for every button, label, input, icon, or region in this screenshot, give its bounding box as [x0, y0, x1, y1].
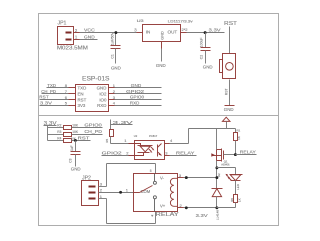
svg-text:RST: RST: [39, 95, 49, 100]
svg-text:GND: GND: [111, 65, 121, 70]
ESP right pin 1 GND: [109, 87, 115, 89]
svg-text:3.3V: 3.3V: [40, 101, 52, 106]
ESP right pin 2 GPIO2: [109, 93, 115, 95]
connector JP2: [82, 175, 103, 205]
LED D2: [225, 174, 242, 190]
wire GND net JP1 pin1: [80, 39, 98, 41]
svg-text:GPIO0: GPIO0: [130, 95, 145, 100]
svg-text:IO2: IO2: [99, 92, 107, 97]
svg-text:IN: IN: [146, 30, 151, 35]
svg-text:RST: RST: [78, 136, 90, 141]
wire JP2 pin1 to relay bottom pin: [99, 198, 107, 200]
svg-text:M023.5MM: M023.5MM: [57, 46, 88, 52]
svg-text:1uF/50V: 1uF/50V: [110, 32, 114, 46]
svg-text:PC817: PC817: [149, 134, 157, 138]
supply 3.3V triangle: [222, 117, 230, 121]
svg-text:V+: V+: [160, 204, 166, 209]
svg-text:2*2: 2*2: [182, 27, 189, 32]
wire relay pin2 to 3.3V net: [178, 207, 184, 209]
svg-text:RELAY: RELAY: [156, 212, 180, 218]
svg-text:R3: R3: [57, 130, 61, 134]
svg-text:GPIO2: GPIO2: [102, 151, 123, 156]
svg-text:R5: R5: [105, 139, 109, 143]
node RST / C3: [74, 139, 77, 142]
wire Q1 source down: [216, 163, 218, 189]
svg-text:GND: GND: [97, 86, 107, 91]
frame border: [39, 14, 279, 226]
wire to opto pin1: [111, 143, 135, 145]
diode D1: [212, 189, 223, 221]
wire top rail: [189, 128, 236, 130]
resistor R6: [234, 195, 238, 203]
wire button to ground: [229, 80, 231, 106]
svg-text:OUT: OUT: [168, 30, 178, 35]
svg-text:RST: RST: [224, 21, 237, 27]
resistor R4 10K: [48, 136, 91, 143]
wire U3 GND pin: [161, 49, 163, 62]
frame divider: [39, 115, 279, 117]
svg-text:A03401: A03401: [221, 162, 230, 166]
resistor R5: [110, 130, 114, 137]
svg-text:RST: RST: [224, 88, 228, 95]
svg-text:RXD: RXD: [130, 101, 140, 106]
svg-text:RXD: RXD: [97, 103, 106, 108]
svg-text:R2: R2: [57, 124, 61, 128]
svg-text:JP1: JP1: [58, 20, 67, 26]
svg-text:U3: U3: [137, 19, 144, 23]
svg-text:U2: U2: [134, 134, 138, 138]
resistor R3 10K: [48, 129, 103, 136]
wire node A to LED D2: [217, 167, 236, 169]
node B: [215, 176, 218, 179]
svg-text:1K: 1K: [237, 136, 241, 140]
svg-text:10K: 10K: [72, 124, 79, 128]
capacitor C3: [69, 141, 81, 167]
svg-text:3.3V: 3.3V: [196, 213, 209, 218]
svg-text:RELAY: RELAY: [240, 150, 256, 155]
ESP left pin 6 RST: [69, 99, 76, 101]
coil: [170, 178, 177, 206]
resistor R2 10K: [48, 123, 103, 130]
svg-text:R1: R1: [237, 129, 241, 133]
svg-text:CH_PD: CH_PD: [41, 89, 56, 94]
svg-text:V-: V-: [160, 175, 165, 180]
svg-text:GPIO0: GPIO0: [84, 123, 102, 128]
module U1 ESP-01S: [76, 77, 110, 112]
node at C2 top: [204, 31, 207, 34]
svg-text:GND: GND: [131, 83, 142, 88]
node bottom: [215, 206, 218, 209]
svg-text:3V3: 3V3: [78, 103, 86, 108]
pushbutton S1 (reset): [220, 54, 236, 79]
svg-text:CH_PD: CH_PD: [84, 129, 102, 134]
wire chain bottom: [217, 207, 236, 209]
svg-text:LL4148: LL4148: [216, 210, 220, 220]
svg-text:ESP-01S: ESP-01S: [82, 77, 110, 83]
ESP left pin 8 TXD: [69, 87, 76, 89]
svg-text:VCC: VCC: [84, 28, 95, 33]
svg-text:LD1117/3.3v: LD1117/3.3v: [168, 19, 193, 23]
wire JP2 pin3 to relay top pin: [99, 186, 107, 188]
svg-text:GND: GND: [156, 63, 166, 68]
transistor Q1 (P-MOSFET): [211, 147, 230, 167]
svg-text:TXD: TXD: [78, 86, 87, 91]
optocoupler U2 PC817: [134, 134, 165, 160]
ESP left pin 7 CH_PD: [69, 93, 76, 95]
svg-text:R4: R4: [57, 137, 61, 141]
svg-text:EN: EN: [78, 92, 84, 97]
node A: [215, 166, 218, 169]
capacitor C1: [110, 32, 120, 64]
ESP left pin 5 3.3V: [69, 105, 76, 107]
svg-text:IO0: IO0: [99, 97, 107, 102]
svg-text:GND: GND: [203, 64, 213, 69]
svg-text:3.3V: 3.3V: [44, 121, 57, 127]
relay K1: [134, 169, 180, 218]
ground bar at button: [225, 105, 235, 107]
ESP right pin 3 GPIO0: [109, 99, 115, 101]
net GPIO2 to opto pin2: [102, 155, 135, 157]
regulator U3 LD1117: [134, 19, 193, 48]
svg-text:1K: 1K: [237, 198, 241, 202]
svg-text:R6: R6: [230, 198, 234, 202]
svg-text:RELAY: RELAY: [176, 150, 195, 155]
svg-text:D2: D2: [217, 173, 221, 177]
node at C1 top: [114, 31, 117, 34]
resistor R1: [235, 129, 237, 133]
svg-text:RST: RST: [78, 97, 87, 102]
gate wire to node RELAY: [224, 154, 236, 156]
wire VCC net JP1 pin2 to U3 IN: [80, 32, 137, 34]
ESP right pin 4 RXD: [109, 105, 115, 107]
svg-text:C1: C1: [110, 54, 114, 58]
svg-text:TXD: TXD: [47, 83, 56, 88]
svg-text:GND: GND: [224, 107, 234, 112]
connector JP1: [57, 20, 88, 51]
svg-text:GND: GND: [84, 35, 95, 40]
svg-text:5: 5: [150, 169, 152, 173]
svg-text:C2: C2: [200, 55, 204, 59]
capacitor C2: [200, 33, 211, 64]
svg-text:GPIO2: GPIO2: [126, 89, 145, 94]
wire 3.3V from U3 OUT: [187, 32, 225, 34]
opto pin3 net RELAY: [165, 155, 170, 157]
wire RST to button: [229, 27, 231, 54]
wire relay pin3 to D1 column: [178, 177, 184, 179]
svg-text:GND: GND: [161, 31, 165, 40]
svg-text:100uF: 100uF: [200, 38, 204, 48]
svg-text:3.3V: 3.3V: [209, 28, 221, 33]
svg-text:1uF: 1uF: [70, 145, 74, 151]
wire JP2 pin2 to relay COM: [99, 192, 134, 194]
opto pin4 wire up: [165, 143, 170, 145]
svg-text:C3: C3: [69, 158, 73, 162]
svg-text:LED: LED: [236, 183, 240, 190]
svg-text:10K: 10K: [72, 130, 79, 134]
svg-text:GND: GND: [71, 167, 81, 172]
